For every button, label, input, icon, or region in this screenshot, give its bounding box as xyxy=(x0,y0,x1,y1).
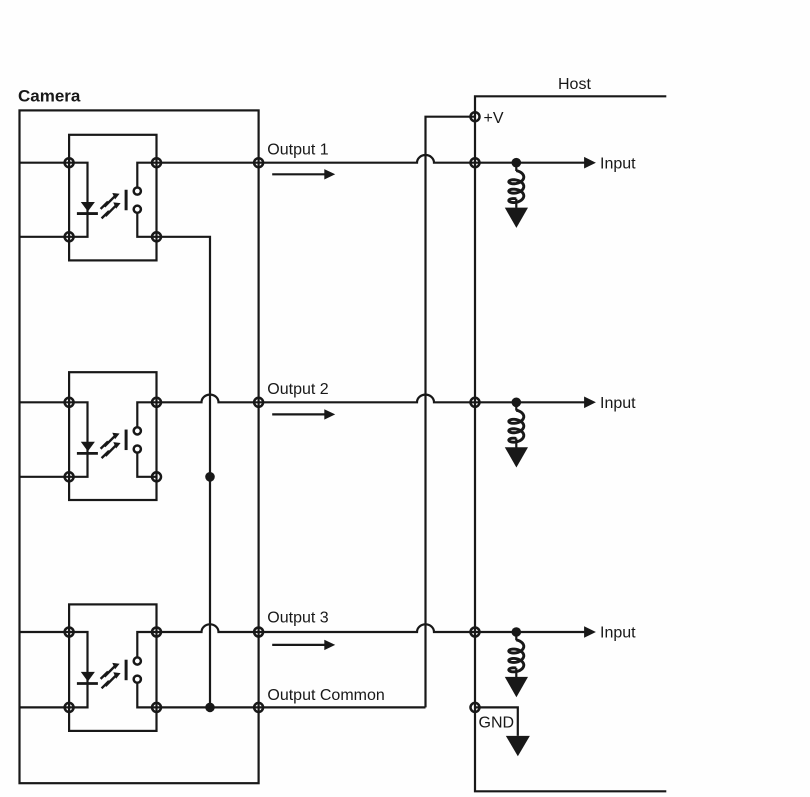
node Output 2 camera terminal xyxy=(254,398,263,407)
wire resistor top stub 1 xyxy=(515,163,517,171)
U2 contact point upper xyxy=(134,427,141,434)
camera box xyxy=(20,110,259,783)
U3 output contact wire lower xyxy=(137,683,156,707)
U1 LED cathode bar xyxy=(77,212,98,215)
optocoupler U1 box xyxy=(69,135,156,261)
U3 photodetector bar xyxy=(125,660,128,681)
resistor R2 (input pull-down) xyxy=(509,410,524,442)
svg-text:Camera: Camera xyxy=(18,86,81,105)
U2 pin3 terminal xyxy=(152,398,161,407)
svg-text:Output Common: Output Common xyxy=(267,687,384,704)
wire resistor bottom stub 1 xyxy=(515,199,517,208)
U3 light arrow upper xyxy=(101,663,120,679)
U2 output contact wire upper xyxy=(137,402,156,426)
input arrow Input 2 xyxy=(584,397,596,409)
wire Output Common (U3 pin4 to riser) xyxy=(157,706,426,708)
wire camera edge to U2 pin2 (cathode) xyxy=(20,476,70,478)
U1 photodetector bar xyxy=(125,190,128,211)
signal-direction arrow Output 3 xyxy=(272,640,335,650)
ground arrow GND xyxy=(506,736,530,756)
node Output 3 camera terminal xyxy=(254,628,263,637)
resistor R1 (input pull-down) xyxy=(509,171,524,203)
wire camera edge to U3 pin2 (cathode) xyxy=(20,706,70,708)
host box outline xyxy=(475,96,666,791)
wire camera edge to U3 pin1 (anode) xyxy=(20,631,70,633)
svg-text:Output 1: Output 1 xyxy=(267,141,328,158)
U1 output contact wire upper xyxy=(137,163,156,187)
svg-text:Host: Host xyxy=(558,76,591,93)
U3 LED lead wires xyxy=(69,632,87,707)
node +V host terminal xyxy=(471,112,480,121)
wire camera edge to U2 pin1 (anode) xyxy=(20,401,70,403)
wire resistor bottom stub 3 xyxy=(515,668,517,677)
wire Input 1 stub to arrow xyxy=(516,162,584,164)
signal-direction arrow Output 2 xyxy=(272,409,335,419)
U1 pin3 terminal xyxy=(152,158,161,167)
svg-text:Input: Input xyxy=(600,155,636,172)
U1 light arrow upper xyxy=(101,193,120,209)
U3 pin1 terminal xyxy=(65,628,74,637)
U3 output contact wire upper xyxy=(137,632,156,657)
U1 LED D1 triangle xyxy=(81,202,95,212)
U1 LED lead wires xyxy=(69,163,87,237)
svg-text:Input: Input xyxy=(600,395,636,412)
junction dot Input 2 xyxy=(512,398,522,408)
ground arrow below R2 xyxy=(505,447,528,467)
junction dot inner common / Output Common xyxy=(205,703,215,713)
U2 contact point lower xyxy=(134,445,141,452)
U2 output contact wire lower xyxy=(137,453,156,477)
U1 contact point lower xyxy=(134,206,141,213)
wire camera edge to U1 pin2 (cathode) xyxy=(20,236,70,238)
svg-text:+V: +V xyxy=(484,110,504,127)
U2 light arrow lower xyxy=(102,442,121,458)
wire inner common return (opto1 pin4 down to Output Common) xyxy=(157,237,211,708)
node GND host terminal xyxy=(471,703,480,712)
U1 pin4 terminal xyxy=(152,232,161,241)
U2 LED D2 triangle xyxy=(81,442,95,452)
node Output 1 camera terminal xyxy=(254,158,263,167)
wire Output Common vertical riser to +V xyxy=(426,117,476,708)
node Input 1 host terminal xyxy=(471,158,480,167)
signal-direction arrow Output 1 xyxy=(272,169,335,179)
U1 output contact wire lower xyxy=(137,213,156,236)
wire resistor top stub 3 xyxy=(515,632,517,640)
junction dot Input 3 xyxy=(512,627,522,637)
wire camera edge to U1 pin1 (anode) xyxy=(20,162,70,164)
U1 contact point upper xyxy=(134,187,141,194)
wire Output 1 (U1 pin3 to host input) xyxy=(157,155,517,163)
wire resistor bottom stub 2 xyxy=(515,438,517,447)
optocoupler U2 box xyxy=(69,372,156,500)
U2 LED cathode bar xyxy=(77,452,98,455)
junction dot Input 1 xyxy=(512,158,522,168)
resistor R3 (input pull-down) xyxy=(509,640,524,672)
wire GND to ground arrow xyxy=(475,707,518,736)
ground arrow below R1 xyxy=(505,208,528,228)
node Input 3 host terminal xyxy=(471,628,480,637)
wire Output 3 (U3 pin3 to host input) xyxy=(157,624,517,632)
U3 LED D3 triangle xyxy=(81,672,95,682)
U2 LED lead wires xyxy=(69,402,87,477)
svg-text:Output 3: Output 3 xyxy=(267,609,328,626)
U3 contact point lower xyxy=(134,676,141,683)
wire Input 3 stub to arrow xyxy=(516,631,584,633)
U2 light arrow upper xyxy=(101,433,120,449)
U3 pin2 terminal xyxy=(65,703,74,712)
wire Output 2 (U2 pin3 to host input) xyxy=(157,395,517,403)
input arrow Input 1 xyxy=(584,157,596,169)
node Output Common camera terminal xyxy=(254,703,263,712)
U1 pin1 terminal xyxy=(65,158,74,167)
U2 pin2 terminal xyxy=(65,472,74,481)
input arrow Input 3 xyxy=(584,626,596,638)
optocoupler U3 box xyxy=(69,604,156,731)
U3 pin3 terminal xyxy=(152,628,161,637)
ground arrow below R3 xyxy=(505,677,528,697)
wire resistor top stub 2 xyxy=(515,402,517,410)
node Input 2 host terminal xyxy=(471,398,480,407)
U2 pin1 terminal xyxy=(65,398,74,407)
svg-text:GND: GND xyxy=(479,714,515,731)
svg-text:Output 2: Output 2 xyxy=(267,381,328,398)
U3 LED cathode bar xyxy=(77,682,98,685)
U2 photodetector bar xyxy=(125,430,128,451)
U1 light arrow lower xyxy=(102,202,121,218)
U1 pin2 terminal xyxy=(65,232,74,241)
U3 light arrow lower xyxy=(102,672,121,688)
svg-text:Input: Input xyxy=(600,625,636,642)
junction dot inner common / U2 pin4 xyxy=(205,472,215,482)
U2 pin4 terminal xyxy=(152,472,161,481)
wire Input 2 stub to arrow xyxy=(516,401,584,403)
U3 pin4 terminal xyxy=(152,703,161,712)
U3 contact point upper xyxy=(134,657,141,664)
